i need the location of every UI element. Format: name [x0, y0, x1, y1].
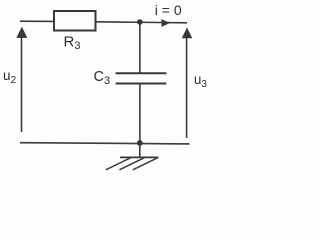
wire	[139, 143, 141, 157]
wire	[139, 84, 141, 143]
svg-text:C3: C3	[94, 69, 111, 87]
current arrow i	[162, 19, 171, 27]
wire	[139, 22, 141, 73]
resistor R3	[54, 11, 96, 31]
node bottom junction	[137, 140, 143, 146]
voltage arrow u3	[182, 28, 193, 139]
svg-text:u2: u2	[3, 68, 17, 86]
voltage arrow u2	[16, 27, 27, 132]
wire	[96, 22, 188, 23]
svg-text:u3: u3	[194, 72, 208, 90]
wire	[20, 20, 54, 22]
wire	[20, 143, 190, 144]
svg-text:i = 0: i = 0	[155, 2, 182, 18]
ground	[106, 157, 159, 169]
node top junction	[137, 19, 143, 25]
svg-text:R3: R3	[64, 34, 81, 53]
capacitor C3	[116, 73, 167, 83]
